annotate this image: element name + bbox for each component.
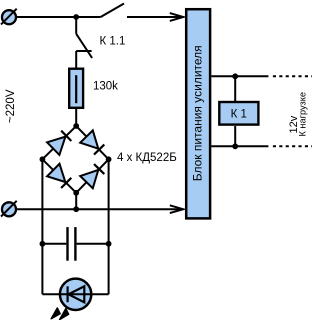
wire right column (bridge right down to LED row)	[108, 159, 110, 294]
svg-text:К 1.1: К 1.1	[100, 35, 126, 47]
node cap left	[40, 241, 46, 247]
dashed wire 12v top	[273, 75, 313, 77]
svg-text:~220V: ~220V	[5, 89, 17, 123]
switch K1.1 normally-open blade	[101, 4, 124, 18]
svg-text:4 х КД522Б: 4 х КД522Б	[117, 152, 177, 164]
wire block to output (bottom)	[211, 145, 268, 147]
node bridge left	[40, 156, 46, 162]
switch K1.1 normally-closed contact (vertical)	[76, 17, 92, 68]
power supply block U1	[186, 9, 210, 218]
wire left column (bridge left down to LED row)	[41, 159, 43, 294]
dashed wire bottom	[273, 145, 313, 147]
node relay bottom	[232, 143, 238, 149]
wire bridge bottom to neutral wire	[75, 193, 77, 209]
capacitor C1	[42, 227, 108, 261]
node relay top	[232, 73, 238, 79]
LED emission arrow 2	[60, 309, 69, 320]
wire from X1 to junction	[16, 16, 76, 18]
svg-text:130k: 130k	[93, 81, 118, 93]
LED HL1	[42, 279, 108, 310]
diode VD2 (top to right)	[80, 130, 104, 154]
node junction at top	[73, 14, 79, 20]
node cap right	[106, 241, 112, 247]
diode VD3 (left to bottom)	[47, 164, 71, 188]
wire block to 12v output (top)	[211, 75, 268, 77]
node on neutral wire	[73, 206, 79, 212]
diode VD1 (left to top)	[47, 131, 71, 155]
arrow into power block (bottom)	[170, 205, 183, 213]
diode bridge wires (diamond)	[42, 126, 108, 193]
terminal X1 (top-left 220V input)	[1, 9, 17, 25]
svg-text:Блок питания усилителя: Блок питания усилителя	[190, 45, 204, 181]
node bridge bottom	[73, 190, 79, 196]
relay K1 coil	[219, 102, 258, 125]
wire resistor to bridge top	[75, 109, 77, 126]
wire X2 to power block	[16, 208, 181, 210]
resistor R1 130k	[69, 69, 83, 108]
svg-text:К нагрузке: К нагрузке	[298, 92, 308, 136]
LED emission arrow 1	[51, 308, 60, 319]
wire relay coil bottom lead	[234, 126, 236, 146]
node bridge top	[73, 123, 79, 129]
node bridge right	[106, 156, 112, 162]
terminal X2 (bottom-left 220V input)	[1, 201, 17, 217]
wire junction to switch	[76, 16, 100, 18]
diode VD4 (bottom to right)	[80, 164, 104, 188]
svg-text:К 1: К 1	[231, 108, 247, 120]
wire relay coil top lead	[234, 76, 236, 101]
wire with arrow into power block (top)	[127, 13, 183, 21]
